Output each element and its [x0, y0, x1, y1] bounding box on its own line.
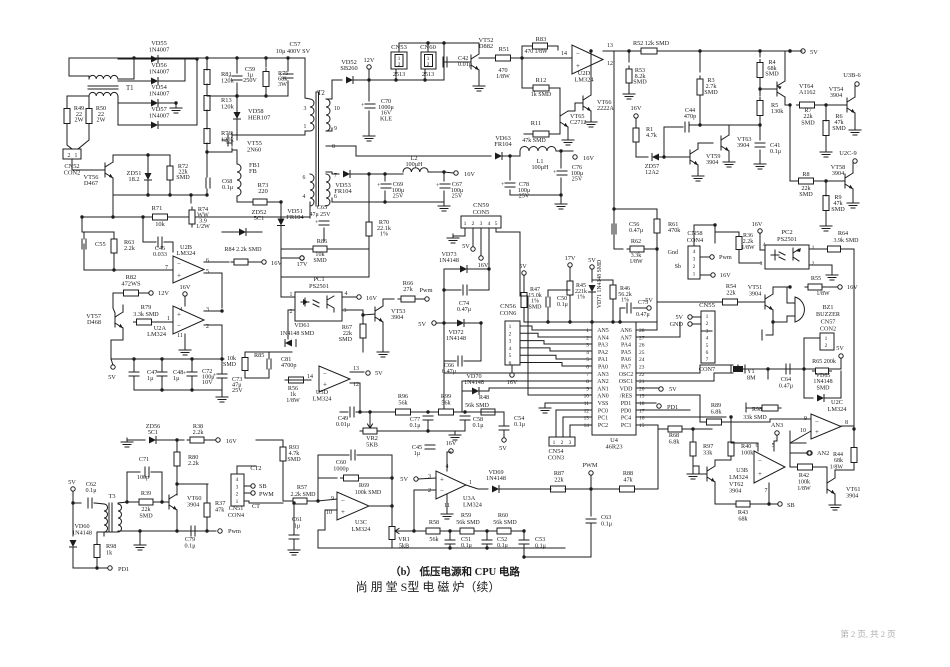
junction [195, 57, 198, 60]
junction [132, 357, 135, 360]
wire out [841, 425, 854, 427]
svg-text:5V: 5V [645, 297, 653, 304]
wire [368, 111, 370, 132]
buzzer BZ1 [795, 297, 804, 322]
wire [692, 323, 701, 325]
svg-text:T3: T3 [108, 493, 115, 500]
wire [714, 225, 716, 243]
resistor R7 [797, 102, 818, 108]
connector CN2 [820, 333, 834, 350]
svg-text:1: 1 [586, 328, 589, 334]
wire [418, 478, 436, 479]
wire [221, 378, 223, 390]
zener VD60 [70, 540, 77, 547]
wire [83, 232, 85, 239]
svg-text:C52: C52 [497, 537, 507, 543]
wire 5V net to pin28 [524, 321, 657, 323]
svg-text:472WS: 472WS [121, 280, 141, 287]
wire out [369, 505, 392, 507]
wire [307, 500, 318, 502]
wire pin2 [204, 324, 222, 326]
wire [692, 316, 701, 318]
wire [590, 489, 592, 516]
ground R53 [623, 90, 635, 99]
resistor R74 [189, 207, 195, 227]
svg-text:5V: 5V [375, 370, 383, 377]
wire CT2 up [237, 466, 256, 474]
ground VT62 [687, 470, 699, 479]
svg-text:−: − [440, 487, 444, 495]
svg-text:CON3: CON3 [548, 455, 564, 462]
resistor R5 [757, 98, 763, 119]
wire [700, 124, 760, 126]
wire [825, 105, 827, 121]
resistor R84 [231, 259, 251, 265]
svg-text:12V: 12V [363, 57, 374, 64]
junction [618, 320, 621, 323]
diode VD57 [151, 122, 158, 129]
wire [147, 155, 149, 173]
svg-text:1/2W: 1/2W [196, 223, 210, 230]
wire out down [768, 483, 770, 504]
resistor R51 [493, 55, 514, 61]
wire [715, 232, 739, 236]
wire [852, 163, 854, 173]
svg-text:R8: R8 [802, 171, 809, 178]
wire [133, 376, 135, 390]
wire [804, 369, 813, 398]
svg-text:PC1: PC1 [598, 416, 608, 422]
svg-text:R85: R85 [254, 352, 264, 359]
junction [589, 49, 592, 52]
svg-text:9: 9 [334, 126, 337, 132]
zener ZD52 [239, 229, 246, 236]
svg-text:100μH: 100μH [405, 161, 423, 168]
ground C70 [363, 132, 375, 141]
svg-text:LM324: LM324 [352, 526, 372, 533]
wire [281, 248, 313, 250]
wire [113, 253, 115, 270]
wire [428, 172, 453, 173]
svg-text:17: 17 [639, 408, 645, 414]
svg-text:D468: D468 [87, 319, 101, 326]
wire [369, 412, 371, 421]
wire PD1 [636, 402, 656, 404]
svg-text:25V: 25V [519, 193, 530, 200]
junction [627, 49, 630, 52]
wire [503, 412, 505, 426]
resistor R85 [242, 355, 248, 374]
wire [592, 280, 613, 285]
junction [138, 529, 141, 532]
svg-text:4: 4 [236, 477, 239, 483]
wire [759, 150, 761, 160]
diode VD63 [495, 153, 502, 160]
junction [71, 501, 74, 504]
svg-text:OSC2: OSC2 [619, 372, 633, 378]
resistor R82 [121, 290, 142, 296]
svg-text:130k: 130k [771, 108, 784, 115]
transformer T3 [109, 503, 112, 532]
junction [205, 193, 208, 196]
wire [520, 372, 592, 374]
wire [759, 51, 761, 57]
optocoupler PC1 box [295, 292, 342, 321]
junction [590, 320, 593, 323]
resistor R40 [728, 439, 734, 459]
junction [367, 172, 370, 175]
wire [118, 58, 152, 60]
wire [728, 151, 730, 158]
svg-text:14: 14 [307, 374, 313, 380]
wire [287, 58, 289, 71]
junction [463, 410, 466, 413]
junction [788, 103, 791, 106]
resistor R11 [530, 131, 552, 137]
svg-text:0.47μ: 0.47μ [457, 306, 472, 313]
svg-text:+: + [323, 381, 327, 389]
wire [68, 58, 70, 76]
svg-text:R84 2.2k SMD: R84 2.2k SMD [224, 247, 262, 253]
svg-text:10V: 10V [202, 379, 213, 386]
ground VT52 [473, 82, 485, 91]
svg-text:5: 5 [586, 357, 589, 363]
wire [825, 136, 827, 148]
IC U4 body [592, 322, 636, 435]
svg-text:6.8k: 6.8k [711, 408, 723, 415]
transistor VT51 3904 [765, 294, 773, 310]
capacitor C78 [501, 182, 515, 188]
svg-text:PC0: PC0 [598, 408, 608, 414]
resistor R93 [280, 444, 286, 464]
terminal 16V [357, 295, 361, 299]
svg-text:0.1μ: 0.1μ [472, 422, 484, 429]
wire [118, 80, 152, 82]
connector CN52 [63, 149, 81, 159]
junction [559, 149, 562, 152]
wire [700, 395, 706, 422]
resistor R86 [310, 246, 330, 252]
capacitor C48 [157, 372, 167, 376]
capacitor C71 [145, 467, 149, 477]
svg-text:470k: 470k [668, 227, 681, 234]
wire [444, 289, 461, 291]
svg-text:SMD: SMD [831, 206, 845, 213]
junction [383, 172, 386, 175]
svg-text:2: 2 [812, 261, 815, 267]
junction [729, 415, 732, 418]
junction [788, 285, 791, 288]
wire [766, 334, 773, 336]
svg-text:5: 5 [495, 221, 498, 227]
junction [239, 260, 242, 263]
junction [442, 288, 445, 291]
svg-text:68k: 68k [834, 458, 843, 464]
wire [716, 503, 736, 505]
wire [511, 365, 513, 372]
junction [448, 546, 451, 549]
resistor R69 [341, 475, 362, 481]
capacitor C45 [425, 445, 435, 449]
wire [486, 544, 488, 548]
wire [206, 189, 208, 195]
wire [280, 240, 282, 258]
wire C78 lead [509, 156, 511, 180]
svg-text:OSC1: OSC1 [619, 379, 633, 385]
svg-text:PD1: PD1 [118, 566, 129, 573]
wire [464, 420, 466, 431]
terminal PD1 [657, 404, 661, 408]
wire [444, 61, 465, 63]
capacitor C70 [361, 103, 375, 109]
capacitor C54 [499, 426, 509, 430]
wire [495, 411, 504, 413]
wire emitter down [772, 310, 774, 335]
wire [591, 269, 593, 282]
junction [168, 193, 171, 196]
inductor L2 [403, 168, 428, 172]
zener ZD56 [149, 437, 156, 444]
svg-text:17V: 17V [565, 255, 576, 262]
svg-text:/RES: /RES [620, 394, 632, 400]
capacitor C63 [586, 519, 596, 523]
wire pin27 [636, 322, 680, 337]
wire [82, 217, 114, 232]
svg-text:18.2: 18.2 [128, 176, 139, 183]
wire [391, 478, 393, 506]
svg-text:SMD: SMD [139, 514, 153, 520]
svg-text:PA0: PA0 [598, 365, 608, 371]
resistor R56 [286, 377, 307, 383]
svg-text:4: 4 [488, 221, 491, 227]
wire [221, 325, 223, 359]
junction [286, 56, 289, 59]
wire [715, 482, 716, 504]
wire [759, 233, 761, 236]
wire long right vertical [853, 249, 855, 429]
junction [655, 247, 658, 250]
svg-text:4: 4 [180, 307, 183, 313]
wire [699, 51, 701, 72]
wire [427, 420, 429, 431]
svg-text:1N4148: 1N4148 [486, 475, 506, 482]
wire [147, 180, 149, 195]
wire [118, 58, 134, 79]
resistor R49 [64, 106, 70, 127]
capacitor C77 [423, 416, 433, 420]
svg-text:1k: 1k [106, 550, 113, 557]
svg-text:8: 8 [586, 379, 589, 385]
wire [814, 180, 845, 182]
wire [551, 126, 560, 134]
resistor R13 [204, 93, 210, 114]
wire [414, 530, 426, 532]
junction [691, 427, 694, 430]
wire base [162, 501, 169, 503]
junction [771, 320, 774, 323]
wire [204, 439, 215, 441]
junction [412, 529, 415, 532]
junction [390, 504, 393, 507]
connector CN56 [505, 321, 520, 365]
svg-text:AN4: AN4 [597, 335, 609, 341]
junction [546, 320, 549, 323]
wire [699, 95, 701, 125]
wire [454, 411, 481, 413]
terminal 16V [634, 114, 638, 118]
wire [523, 544, 525, 557]
resistor R57 [290, 498, 310, 504]
svg-text:3: 3 [428, 474, 431, 480]
capacitor C61 [289, 535, 299, 539]
ground VT66 [585, 118, 597, 127]
svg-text:−: − [177, 322, 181, 330]
wire pin3 [342, 309, 363, 311]
wire CN56-1 [520, 326, 592, 330]
wire [148, 154, 170, 156]
wire [471, 42, 479, 44]
resistor R60 [494, 528, 514, 534]
svg-text:3: 3 [344, 308, 347, 314]
resistor R81 [204, 67, 210, 88]
svg-text:5V: 5V [675, 314, 683, 321]
resistor R98x [759, 405, 781, 411]
wire [449, 531, 451, 540]
svg-text:LM324: LM324 [729, 474, 749, 481]
svg-text:25V: 25V [232, 387, 243, 394]
svg-text:R39: R39 [141, 490, 151, 497]
resistor R97 [690, 439, 696, 459]
wire PC1 [563, 417, 592, 437]
junction [559, 193, 562, 196]
wire [323, 228, 325, 240]
terminal 17V [300, 256, 304, 260]
wire [111, 328, 123, 340]
svg-text:SMD: SMD [176, 174, 190, 181]
svg-text:R60: R60 [498, 512, 508, 519]
junction [788, 49, 791, 52]
svg-text:6: 6 [206, 258, 209, 264]
wire [293, 539, 295, 548]
ground bus [216, 393, 228, 402]
wire [614, 208, 657, 210]
wire [769, 503, 778, 505]
svg-text:1μ: 1μ [147, 375, 154, 382]
wire OSC1 [636, 373, 733, 381]
wire [118, 102, 152, 104]
ground VT61 [829, 501, 841, 510]
diode VD70 [472, 388, 479, 395]
svg-text:CN57: CN57 [821, 318, 836, 325]
wire CN56-5 [520, 355, 592, 359]
zener VD71 [589, 285, 596, 292]
wire [221, 390, 223, 395]
wire [444, 360, 456, 362]
wire [568, 103, 583, 111]
svg-text:47k: 47k [215, 506, 225, 513]
wire out [466, 485, 488, 489]
svg-text:3904: 3904 [737, 142, 749, 149]
svg-text:R62: R62 [631, 238, 641, 245]
wire [356, 411, 396, 413]
svg-text:25V: 25V [393, 193, 404, 200]
svg-text:PA2: PA2 [598, 350, 608, 356]
svg-text:+: + [576, 62, 580, 70]
wire [395, 69, 397, 80]
junction [220, 357, 223, 360]
wire [244, 501, 249, 503]
diode VD55 [151, 56, 158, 63]
svg-text:SMD: SMD [287, 457, 301, 463]
svg-text:R55: R55 [811, 275, 821, 282]
junction [589, 487, 592, 490]
wire [384, 174, 386, 181]
wire [207, 95, 288, 97]
svg-text:2222A: 2222A [597, 105, 614, 112]
svg-text:27k: 27k [403, 286, 413, 293]
wire C59 lead [236, 58, 238, 73]
wire [644, 248, 657, 250]
pot VR1 body [389, 524, 395, 543]
transformer T1 [88, 75, 118, 96]
wire bottom [118, 530, 208, 532]
wire [523, 308, 525, 322]
svg-text:2: 2 [427, 62, 430, 68]
junction [520, 56, 523, 59]
wire pin10 [318, 510, 337, 530]
svg-text:2: 2 [706, 321, 709, 327]
wire [590, 111, 592, 118]
resistor R46 [610, 282, 616, 302]
svg-text:CON4: CON4 [228, 512, 244, 519]
terminal 12V [149, 291, 153, 295]
junction [802, 367, 805, 370]
svg-text:CON7: CON7 [699, 366, 715, 373]
svg-text:470 1/8W: 470 1/8W [524, 49, 548, 55]
transistor VT61 3904 [827, 478, 835, 494]
svg-text:BUZZER: BUZZER [816, 311, 841, 318]
junction [442, 170, 445, 173]
svg-text:C51: C51 [461, 537, 471, 543]
svg-text:56k SMD: 56k SMD [493, 520, 517, 526]
wire [287, 81, 289, 96]
svg-text:R64: R64 [838, 230, 848, 237]
wire [156, 439, 184, 441]
wire CN58 top [694, 225, 715, 246]
wire CN56-2 [520, 333, 592, 337]
resistor R96 [393, 409, 414, 415]
wire [383, 299, 394, 306]
wire [117, 531, 119, 532]
svg-text:2: 2 [428, 488, 431, 494]
svg-text:3.9k SMD: 3.9k SMD [833, 238, 859, 244]
wire [565, 488, 620, 490]
wire [159, 102, 176, 104]
capacitor C69 [377, 183, 391, 189]
T3 right coil [118, 504, 122, 532]
capacitor C52 [482, 540, 492, 544]
wire [700, 256, 709, 258]
wire [265, 87, 267, 96]
svg-text:T1: T1 [126, 85, 134, 92]
junction [175, 438, 178, 441]
junction [125, 500, 128, 503]
svg-text:PA5: PA5 [621, 350, 631, 356]
resistor R50 [86, 106, 92, 127]
wire 5V bus [111, 358, 224, 360]
svg-text:22k: 22k [141, 507, 151, 513]
svg-text:18: 18 [639, 401, 645, 407]
